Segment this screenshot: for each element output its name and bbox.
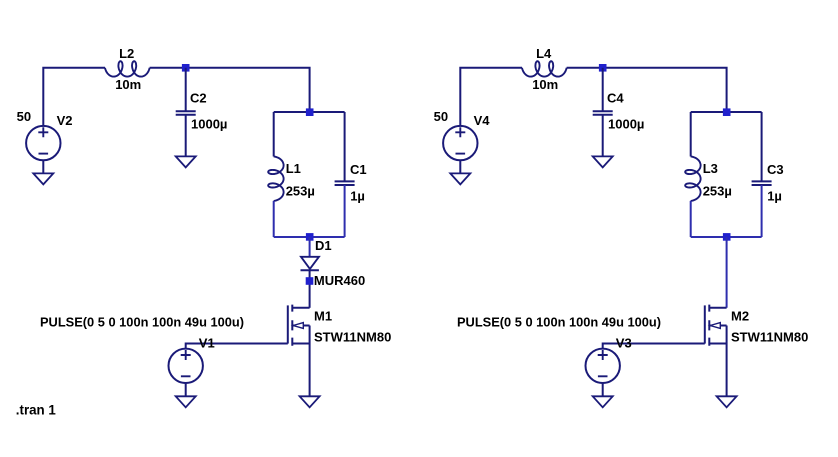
inductor L2 [105, 61, 150, 76]
svg-text:10m: 10m [115, 77, 141, 92]
wire [43, 68, 105, 126]
ground [717, 396, 737, 407]
svg-text:L3: L3 [703, 161, 718, 176]
junction J4-diode-cathode [306, 277, 314, 285]
ground [176, 396, 196, 407]
wire [150, 68, 310, 112]
wire [185, 383, 187, 397]
svg-text:D1: D1 [315, 238, 332, 253]
left circuit [17, 46, 392, 407]
transistor M2 [705, 305, 727, 346]
wire [42, 160, 44, 173]
capacitor C4 [593, 111, 613, 115]
svg-text:50: 50 [434, 109, 448, 124]
svg-text:M2: M2 [731, 309, 749, 324]
wire [185, 68, 187, 111]
wire [726, 344, 728, 397]
wire [602, 115, 604, 157]
junction J2-tank-top [723, 108, 731, 116]
svg-text:V1: V1 [199, 336, 215, 351]
transistor M1 [288, 305, 310, 346]
wire [726, 237, 728, 308]
ground [593, 396, 613, 407]
svg-text:C3: C3 [767, 162, 784, 177]
inductor L3 [685, 157, 700, 201]
wire [186, 344, 288, 349]
capacitor C2 [176, 111, 196, 115]
inductor L4 [522, 61, 567, 76]
wire [273, 201, 275, 237]
ground [176, 156, 196, 167]
svg-text:C2: C2 [190, 91, 207, 106]
junction J2-tank-top [306, 108, 314, 116]
svg-text:.tran 1: .tran 1 [16, 402, 57, 417]
wire [690, 112, 692, 157]
wire [344, 112, 346, 181]
svg-text:1µ: 1µ [767, 189, 782, 204]
wire [344, 185, 346, 237]
inductor L1 [268, 157, 283, 201]
svg-text:10m: 10m [532, 77, 558, 92]
wire [691, 236, 762, 238]
wire [602, 383, 604, 397]
junction J3-tank-bottom [306, 233, 314, 241]
wire [309, 237, 311, 257]
capacitor C3 [752, 181, 772, 185]
junction J1-L2 [182, 64, 190, 72]
svg-text:V4: V4 [474, 113, 491, 128]
junction J3-tank-bottom [723, 233, 731, 241]
ground [33, 173, 53, 184]
svg-text:1000µ: 1000µ [191, 117, 227, 132]
svg-text:C1: C1 [350, 162, 367, 177]
svg-text:STW11NM80: STW11NM80 [314, 330, 391, 345]
svg-text:PULSE(0 5 0 100n 100n 49u 100u: PULSE(0 5 0 100n 100n 49u 100u) [40, 314, 244, 329]
wire [309, 344, 311, 397]
wire [761, 185, 763, 237]
svg-text:L4: L4 [536, 46, 552, 61]
wire [460, 68, 522, 126]
svg-text:1000µ: 1000µ [608, 117, 644, 132]
svg-text:V3: V3 [616, 336, 632, 351]
ground [593, 156, 613, 167]
svg-text:L1: L1 [286, 161, 301, 176]
wire [603, 344, 705, 349]
wire [274, 111, 345, 113]
wire [567, 68, 727, 112]
voltage source V1 [169, 349, 203, 383]
svg-text:PULSE(0 5 0 100n 100n 49u 100u: PULSE(0 5 0 100n 100n 49u 100u) [457, 314, 661, 329]
wire [761, 112, 763, 181]
wire [185, 115, 187, 157]
capacitor C1 [335, 181, 355, 185]
svg-text:M1: M1 [314, 309, 332, 324]
wire [273, 112, 275, 157]
svg-text:C4: C4 [607, 91, 624, 106]
svg-text:STW11NM80: STW11NM80 [731, 330, 808, 345]
svg-text:L2: L2 [119, 46, 134, 61]
svg-text:50: 50 [17, 109, 31, 124]
svg-text:V2: V2 [57, 113, 73, 128]
svg-text:253µ: 253µ [703, 183, 732, 198]
wire [309, 270, 311, 308]
ground [300, 396, 320, 407]
voltage source V2 [26, 126, 60, 160]
wire [459, 160, 461, 173]
right circuit [434, 46, 809, 407]
svg-text:253µ: 253µ [286, 183, 315, 198]
junction J1-L4 [599, 64, 607, 72]
svg-text:1µ: 1µ [350, 189, 365, 204]
ground [450, 173, 470, 184]
wire [690, 201, 692, 237]
svg-text:MUR460: MUR460 [314, 273, 365, 288]
voltage source V4 [443, 126, 477, 160]
diode D1 [301, 257, 319, 271]
wire [274, 236, 345, 238]
voltage source V3 [586, 349, 620, 383]
wire [602, 68, 604, 111]
wire [691, 111, 762, 113]
